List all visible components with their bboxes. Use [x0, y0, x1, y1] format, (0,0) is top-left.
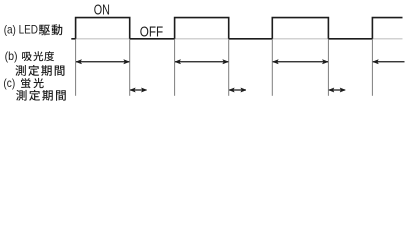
- label kanji 吸 (absorb): [22, 52, 32, 61]
- wire faint baseline continuation under pulses: [76, 38, 403, 40]
- label kanji 測 (measure) row b: [15, 65, 25, 76]
- label kanji 定 (determine) row b: [28, 65, 39, 76]
- svg-text:LED: LED: [19, 24, 38, 37]
- node guide line at falling edge 3: [327, 39, 329, 95]
- label kanji 駆 (drive): [39, 25, 50, 36]
- svg-text:ON: ON: [94, 2, 110, 18]
- label kanji 蛍 (firefly/fluorescence): [21, 78, 31, 88]
- label kanji 光 (light): [33, 51, 43, 61]
- label kanji 定 (determine) row c: [29, 90, 40, 101]
- svg-text:OFF: OFF: [140, 25, 163, 41]
- node guide line at rising edge 2: [174, 39, 176, 95]
- wire pulse 3: [272, 18, 328, 39]
- label kanji 間 (interval) row c: [56, 90, 66, 100]
- label kanji 測 (measure) row c: [16, 90, 26, 101]
- svg-text:(c): (c): [3, 77, 15, 90]
- node guide line at rising edge 1: [75, 39, 77, 95]
- arrow absorbance measurement period 1: [76, 61, 129, 63]
- svg-text:(a): (a): [4, 24, 16, 37]
- wire baseline OFF segment 2: [229, 38, 273, 40]
- svg-text:(b): (b): [5, 50, 18, 63]
- node guide line at falling edge 1: [129, 39, 131, 95]
- wire pulse 1 (rising edge, top, falling edge): [76, 18, 130, 39]
- arrow absorbance measurement period 2: [175, 61, 228, 63]
- label kanji 度 (degree): [44, 51, 54, 61]
- wire baseline OFF segment 1: [130, 38, 175, 40]
- arrow absorbance measurement period 3: [273, 61, 328, 63]
- wire pulse 4 (partial, runs off to the right): [372, 18, 402, 39]
- arrow fluorescence measurement period 2: [229, 89, 246, 91]
- wire pulse 2: [175, 18, 229, 39]
- label kanji 動 (drive): [52, 24, 63, 35]
- arrow fluorescence measurement period 1: [130, 89, 147, 91]
- label kanji 期 (period) row c: [42, 90, 53, 101]
- arrow fluorescence measurement period 3: [329, 89, 345, 91]
- node guide line at rising edge 4: [371, 39, 373, 95]
- node guide line at rising edge 3: [271, 39, 273, 95]
- label kanji 間 (interval) row b: [55, 66, 65, 76]
- label kanji 光 (light) row c: [33, 78, 43, 88]
- wire baseline OFF segment 3: [328, 38, 372, 40]
- wire LED drive waveform baseline stub: [71, 38, 75, 40]
- node guide line at falling edge 2: [228, 39, 230, 95]
- label kanji 期 (period) row b: [41, 65, 52, 76]
- arrow absorbance measurement period 4 (cut off at right): [373, 61, 405, 63]
